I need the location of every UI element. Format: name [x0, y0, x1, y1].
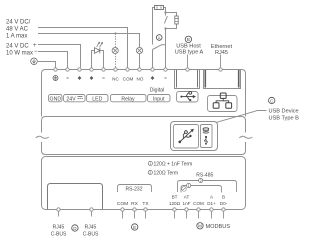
svg-text:RS-485: RS-485 [196, 172, 213, 178]
svg-text:Relay: Relay [121, 96, 135, 102]
svg-text:USB Device: USB Device [269, 109, 299, 115]
svg-text:C-BUS: C-BUS [83, 232, 99, 238]
svg-text:USB type A: USB type A [175, 50, 204, 56]
svg-text:RJ45: RJ45 [53, 225, 65, 231]
svg-text:BT: BT [172, 194, 178, 199]
svg-text:Input: Input [153, 96, 165, 102]
svg-text:24 V DC/: 24 V DC/ [6, 20, 31, 26]
svg-text:10 W max: 10 W max [6, 51, 33, 57]
svg-text:RJ45: RJ45 [85, 225, 97, 231]
svg-text:Digital: Digital [150, 88, 164, 94]
svg-text:2: 2 [149, 171, 151, 175]
svg-text:MODBUS: MODBUS [206, 224, 231, 230]
svg-text:D0-: D0- [220, 201, 228, 206]
svg-text:1: 1 [149, 162, 151, 166]
svg-text:LED: LED [92, 96, 102, 102]
svg-text:A: A [210, 194, 214, 199]
svg-text:48 V AC: 48 V AC [6, 27, 29, 33]
svg-text:−: − [34, 49, 38, 55]
svg-text:RX: RX [131, 201, 139, 207]
svg-text:E: E [133, 225, 136, 230]
svg-text:USB Type B: USB Type B [269, 116, 300, 122]
svg-text:1: 1 [188, 184, 190, 188]
svg-text:NC: NC [112, 77, 119, 82]
svg-text:M: M [198, 224, 202, 229]
svg-text:120Ω Term: 120Ω Term [154, 170, 179, 176]
svg-text:120Ω: 120Ω [169, 201, 181, 206]
svg-text:NO: NO [137, 77, 144, 82]
svg-text:24 V DC: 24 V DC [6, 44, 29, 50]
svg-text:COM: COM [117, 201, 128, 207]
svg-text:A: A [158, 35, 161, 40]
svg-text:D: D [73, 226, 77, 231]
svg-text:C-BUS: C-BUS [51, 232, 67, 238]
svg-text:GND: GND [50, 96, 62, 102]
svg-text:1 A max: 1 A max [6, 34, 27, 40]
svg-text:RJ45: RJ45 [215, 50, 228, 56]
svg-text:AT: AT [184, 194, 190, 199]
svg-text:TX: TX [142, 201, 149, 207]
svg-text:B: B [222, 194, 225, 199]
svg-text:1nF: 1nF [183, 201, 191, 206]
svg-text:24V: 24V [66, 96, 76, 102]
svg-text:COM: COM [123, 77, 134, 82]
svg-text:COM: COM [193, 201, 204, 206]
svg-text:120Ω + 1nF Term: 120Ω + 1nF Term [154, 161, 193, 167]
svg-text:2: 2 [200, 179, 202, 183]
svg-text:D1+: D1+ [207, 201, 216, 206]
svg-text:C: C [270, 98, 274, 103]
svg-text:B: B [187, 37, 190, 42]
svg-text:RS-232: RS-232 [126, 187, 143, 193]
